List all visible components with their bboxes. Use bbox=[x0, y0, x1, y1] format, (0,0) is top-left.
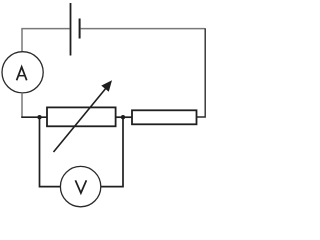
ammeter A1 circle bbox=[2, 52, 43, 93]
ammeter A1 label letter A bbox=[17, 67, 27, 80]
wire left vertical from top corner down to ammeter bbox=[21, 29, 23, 52]
battery B1 short plate bbox=[79, 19, 81, 39]
wire left node row horizontal to variable resistor bbox=[21, 116, 47, 118]
node right junction dot bbox=[121, 115, 125, 119]
wire voltmeter left branch bbox=[40, 117, 61, 186]
voltmeter V1 circle bbox=[60, 166, 100, 206]
variable resistor R1 arrowhead bbox=[102, 81, 111, 91]
wire from ammeter bottom down to left node row bbox=[21, 93, 23, 117]
node left junction dot bbox=[37, 115, 41, 119]
battery B1 long plate bbox=[70, 3, 72, 56]
variable resistor R1 arrow shaft bbox=[54, 88, 107, 153]
wire right vertical down to fixed resistor stub bbox=[197, 28, 205, 117]
voltmeter V1 label letter V bbox=[75, 180, 86, 193]
variable resistor R1 body bbox=[47, 107, 116, 126]
wire top-left horizontal from ammeter branch to battery bbox=[21, 28, 69, 30]
wire top-right horizontal from battery to top-right corner bbox=[81, 28, 205, 30]
wire voltmeter right branch bbox=[101, 117, 123, 186]
resistor R2 body bbox=[132, 110, 197, 124]
wire between variable resistor and fixed resistor bbox=[116, 116, 132, 118]
